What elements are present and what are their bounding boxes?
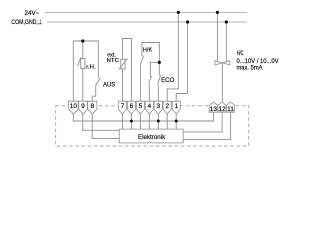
- svg-text:H/C: H/C: [237, 50, 244, 57]
- valve H/C output line to terminal 12: [221, 63, 223, 103]
- svg-text:11: 11: [227, 106, 234, 113]
- svg-text:r.H.: r.H.: [86, 64, 96, 70]
- wire bus COM: T10 to T13: [73, 112, 213, 121]
- wire AUS lower jog to terminal 8: [92, 85, 96, 101]
- terminal 13: [209, 102, 218, 112]
- wire T5 drop: [139, 114, 141, 129]
- node bus/T6: [130, 120, 133, 123]
- node 24V/valve: [216, 11, 219, 14]
- svg-text:2: 2: [165, 103, 169, 110]
- svg-text:1: 1: [174, 103, 178, 110]
- wire Elektronik to T11: [183, 112, 230, 139]
- net COM,GND supply line: [47, 21, 247, 23]
- terminal 10: [69, 101, 79, 114]
- terminal 11: [227, 102, 235, 112]
- svg-text:9: 9: [81, 103, 85, 110]
- svg-text:COM,GND,⊥: COM,GND,⊥: [11, 19, 42, 26]
- wire NTC loop: [122, 39, 131, 102]
- thermistor NTC strike diagonal: [119, 58, 128, 69]
- svg-text:max. 5mA: max. 5mA: [237, 65, 264, 72]
- svg-text:4: 4: [147, 103, 151, 110]
- svg-text:NTC: NTC: [107, 58, 120, 64]
- wire r.H. sensor leg lower: [82, 68, 84, 101]
- wire branch from node to terminal 4 leg: [150, 62, 159, 77]
- svg-text:AUS: AUS: [103, 81, 115, 88]
- wire r.H. sensor leg upper: [82, 41, 84, 59]
- resistor r.H. humidity sensor body: [81, 59, 85, 69]
- node COM/valve: [225, 20, 228, 23]
- arrow r.H. sensor diagonal: [78, 57, 81, 66]
- box Elektronik: [119, 129, 183, 143]
- svg-text:6: 6: [130, 103, 134, 110]
- svg-text:ECO: ECO: [161, 77, 174, 84]
- terminal 9: [79, 101, 88, 114]
- switch ECO blade: [158, 75, 161, 84]
- wire T6 drop: [130, 114, 132, 129]
- wire T9 to Elektronik: [83, 114, 119, 130]
- node COM/T1: [186, 20, 189, 23]
- wire COM drop to terminal 1: [176, 22, 187, 101]
- wire T8 to Elektronik: [92, 114, 119, 138]
- terminal 3: [154, 101, 162, 114]
- wire H/K bridge: [142, 43, 159, 76]
- wire Elektronik to T12: [183, 112, 222, 132]
- junction dots: [81, 11, 228, 123]
- terminal 4: [145, 101, 153, 114]
- node r.H. bridge: [81, 39, 84, 42]
- terminal 12: [218, 102, 226, 112]
- svg-text:10: 10: [70, 103, 78, 110]
- svg-text:24V~: 24V~: [25, 10, 40, 17]
- node 24V/T2: [177, 11, 180, 14]
- switch H/K blade (terminal 4 leg): [149, 76, 152, 83]
- wire COM drop to valve: [225, 22, 227, 61]
- dashed enclosure border: [56, 106, 249, 146]
- terminal 7: [118, 101, 126, 114]
- terminal 8: [88, 101, 97, 114]
- wire NTC lower: [121, 69, 123, 101]
- svg-text:7: 7: [121, 103, 125, 110]
- wire r.H. bridge: [73, 41, 98, 101]
- svg-text:13: 13: [210, 106, 218, 113]
- terminal 5: [136, 101, 144, 114]
- wire T7 drop: [121, 114, 123, 129]
- svg-text:3: 3: [156, 103, 160, 110]
- svg-text:8: 8: [90, 103, 94, 110]
- node H/K junction: [158, 61, 161, 64]
- wire 24V drop to terminal 2: [167, 12, 178, 101]
- wire T1 drop: [175, 114, 177, 129]
- wire 24V drop to valve: [216, 12, 218, 61]
- wire terminal 5 leg lower: [139, 65, 141, 102]
- wire T4 drop: [148, 114, 150, 129]
- net 24V~ supply line: [45, 11, 247, 13]
- terminal 2: [163, 101, 171, 114]
- wire T3 drop: [157, 114, 159, 129]
- node bus/T1: [175, 120, 178, 123]
- terminal 6: [127, 101, 135, 114]
- svg-text:12: 12: [218, 106, 226, 113]
- switch H/K blade (terminal 5 leg): [140, 56, 143, 65]
- terminal strip group A (10,9,8): [69, 101, 235, 114]
- node bus/T3: [157, 120, 160, 123]
- thermistor ext. NTC body: [121, 59, 125, 69]
- wire T2 drop: [166, 114, 168, 129]
- switch AUS blade: [96, 78, 101, 85]
- svg-text:H/K: H/K: [143, 47, 153, 53]
- valve H/C bowtie symbol: [215, 61, 230, 65]
- terminal numbers: [70, 103, 235, 113]
- svg-text:Elektronik: Elektronik: [138, 134, 166, 141]
- wire terminal 4 leg lower: [148, 83, 150, 101]
- terminal 1: [172, 101, 180, 114]
- svg-text:5: 5: [139, 103, 143, 110]
- wire ECO lower to terminal 3: [157, 84, 159, 101]
